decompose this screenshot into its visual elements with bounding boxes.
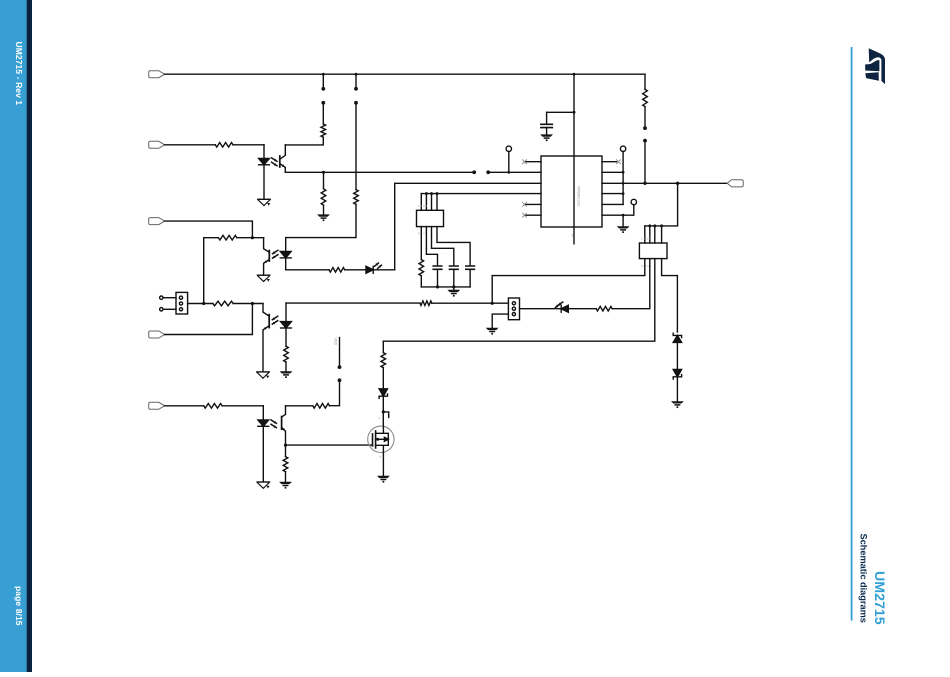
resistor R3 [215,143,233,148]
LED D4 (pointing left) [560,305,562,312]
wire Q1 source to ground [382,452,384,475]
capacitor C4 [466,266,475,269]
connector CN3 top pins [645,226,662,243]
svg-text:VIPER012XS: VIPER012XS [577,186,581,207]
ST logo (rotated) [865,48,885,84]
connector flag P6 (right) [727,180,743,187]
LED D2 (indicator, pointing right) [366,266,373,273]
isolated ground below U3 emitter [257,371,269,373]
IC U5 left pin 4 wire to CN2 header [421,193,541,195]
connector flag P3 [149,218,165,225]
wire IC U5 output net to connector flag P6 [602,182,727,184]
IC U5 right pins bus with test circle [620,146,625,151]
IC U5 test pin circle (left) [508,152,510,173]
solder bridge SB1 [322,74,324,88]
wire CN4 pin3 to ground [492,314,508,328]
wire down to opto U3 collector row [203,238,205,304]
header CN2 top pins bus [421,194,437,211]
ground below CN4 pin3 [486,328,499,330]
svg-text:page 8/15: page 8/15 [14,586,24,626]
wire VDD branch to C1 [547,111,574,113]
wire R3 to opto U1 LED [233,144,264,146]
ground below IC U5 pin 6 [617,226,630,228]
resistor R10 [420,301,432,306]
resistor R6 [329,268,345,273]
svg-text:1 2 3 4: 1 2 3 4 [418,204,428,208]
wire CN3 pin6 to R9/D4 net [612,259,650,309]
resistor R15 (series to U3 LED anode) [354,190,359,205]
connector flag P1 (top left) [149,71,165,78]
wire U4 emitter to Q1 gate [286,444,373,446]
solder bridge SB2 [355,74,357,88]
IC U5 left pin 1 arrow [525,161,542,163]
LED D2 light arrows [375,263,379,266]
optocoupler U1 LED (input side) [263,145,265,159]
optocoupler U2 light arrows [273,250,278,253]
ground below Q1 source [377,476,390,478]
optocoupler U4 phototransistor [282,406,286,417]
ground below R14 [279,482,292,484]
wire P5 to R12 [165,405,204,407]
ground below zener chain [671,401,684,403]
resistor R11 [381,353,386,368]
ground below C1 [540,134,553,136]
sidebar navy stripe [27,0,32,672]
resistor R8 (U3 LED pulldown) [284,346,289,362]
wire SB2 down to resistor R15 [355,103,357,190]
IC U5 left pin 6 arrow [525,214,542,216]
resistor R7 [213,301,233,306]
resistor R13 [313,404,330,409]
svg-text:8: 8 [572,234,574,238]
right blue rule [851,47,853,621]
optocoupler U1 phototransistor [280,145,286,159]
capacitor C1 [546,112,548,123]
optocoupler U2 phototransistor (left) [264,238,270,253]
IC U5 left pin 5 arrow [525,203,542,205]
wire P2 to R3 [165,144,216,146]
capacitor C2 [433,266,442,269]
wire U4 emitter node [284,444,287,447]
resistor R12 [204,404,222,409]
wire decoupling bank bottom rail [421,286,470,288]
resistor R4 [419,260,424,276]
wire CN3 pin5 to CN4 pin1 net [492,259,645,276]
header CN2 pin 7 to C3 [432,227,454,266]
sidebar light blue band [0,0,27,672]
IC U5 right pin 1 arrow [602,161,617,163]
IC U5 body [541,156,602,227]
svg-text:1 2 3 4: 1 2 3 4 [641,237,651,241]
resistor R9 [596,306,612,311]
resistor R1 (top right, rail to output net) [644,74,646,89]
connector CN3 body [639,243,667,259]
optocoupler U3 light arrows [272,316,277,319]
isolated ground below U2 emitter [257,274,269,276]
svg-text:VDD: VDD [333,338,337,346]
isolated ground below U4 LED [257,481,269,483]
svg-text:UM2715: UM2715 [871,571,887,625]
header CN2 pin 8 to C4 [437,227,470,266]
solder bridge SB3 [644,107,646,128]
MOSFET Q1 [368,426,394,452]
wire CN3 pin8 to zener clamp chain [662,259,678,332]
wire gate-drive net down from CN3 pin7 row [382,341,384,352]
optocoupler U2 LED [285,238,287,252]
wire output net down to CN3 bus [645,183,678,226]
zener D5 (gate clamp) [379,389,387,396]
wire P4 up to U3 row [165,304,253,335]
zener D6 (cathode up) [673,335,681,342]
ground below decoupling bank [453,287,455,290]
ground below R16 [317,214,330,216]
wire P3 to base net of U2 [165,221,253,238]
ground below R8 [280,371,293,373]
wire CN4 pin2 to LED D4 [520,308,562,310]
svg-text:UM2715 - Rev 1: UM2715 - Rev 1 [14,42,24,106]
header CN2 pin 6 to C2 [426,227,437,266]
IC U5 vertical drain line [573,74,575,244]
wire U3 LED anode row to CN4 [286,302,420,304]
optocoupler U4 light arrows [271,420,276,423]
wire U4 collector to R13 [286,405,313,407]
wire R15 to opto U3 LED anode [286,204,356,237]
IC U5 left pin 3 wire to D2 branch [395,183,541,269]
resistor R5 [218,235,236,240]
LED D4 light arrows [555,304,559,307]
resistor R2 (SB1 to opto U2 collector) [321,124,326,137]
svg-text:Schematic diagrams: Schematic diagrams [858,534,868,623]
connector flag P5 [149,402,165,409]
connector flag P4 [149,331,165,338]
isolated ground below U1 LED [258,198,270,200]
junction dots on top rail [322,73,325,76]
capacitor C3 [450,266,459,269]
resistor R16 (U1 emitter pulldown) [322,171,325,174]
wire CN1 pin2 to opto U3 row [188,303,204,305]
optocoupler U3 phototransistor [263,304,269,317]
connector flag P2 [149,141,165,148]
connector CN1 (left 3-pin) [176,292,188,314]
wire CN3 pin7 to gate drive net [383,259,655,342]
wire U1 emitter to IC U5 pin (with solder bridge SB4) [285,171,474,173]
optocoupler U3 LED [285,303,287,322]
solder bridge SB5 (VDD) [339,338,341,367]
header CN2 body [417,210,444,226]
header CN2 bottom pin 5 to R4 [420,227,422,260]
svg-text:5 6 7 8: 5 6 7 8 [641,264,651,268]
optocoupler U4 LED [262,406,264,420]
resistor R14 (gate pulldown) [283,457,288,472]
IC U5 right pin 6 to ground, test circle [602,214,623,216]
node stub near Q1 drain [382,410,385,413]
wire node R5 row [204,237,219,239]
wire top rail [165,73,645,75]
optocoupler U1 light arrows [272,158,277,161]
connector CN4 (right 3-pin) [508,298,519,320]
wire U2 LED cathode to R6 [286,269,329,271]
zener D7 (cathode down) [673,369,681,376]
wire R2 to U2 collector [285,137,323,145]
wire CN3 pin5 net down to CN4 pin1 [491,276,493,304]
CN1 pin stubs with open ends [163,297,176,299]
